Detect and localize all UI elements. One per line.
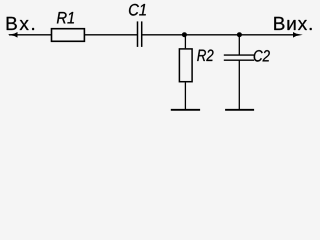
label C2 [254, 50, 270, 62]
input arrowhead (left) [8, 32, 18, 38]
label R2 [197, 50, 213, 62]
ground (C2) [225, 109, 254, 111]
node junction 2 [237, 32, 242, 37]
node Вх. input label [7, 17, 34, 30]
label R1 [57, 12, 74, 23]
wire R1 to C1 [84, 34, 137, 36]
output arrowhead (right) [293, 32, 303, 38]
node Вих. output label [274, 17, 311, 30]
wire node1 down to R2 [184, 35, 186, 49]
capacitor C1 [137, 21, 139, 47]
resistor R1 [52, 29, 85, 42]
node junction 1 [182, 32, 187, 37]
wire input to R1 [9, 34, 52, 36]
capacitor C2 [224, 54, 254, 56]
ground (R2) [171, 109, 200, 111]
label C1 [129, 4, 146, 16]
wire C2 down to ground [238, 60, 240, 110]
wire R2 down to ground [184, 82, 186, 109]
wire node2 down to C2 [238, 35, 240, 55]
wire C1 to output [142, 34, 295, 36]
resistor R2 [179, 49, 192, 82]
